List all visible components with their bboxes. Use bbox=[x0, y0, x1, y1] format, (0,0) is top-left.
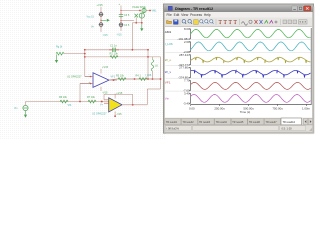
output wire bbox=[109, 79, 117, 81]
svg-text:V+: V+ bbox=[100, 104, 104, 107]
status bar bbox=[165, 125, 312, 132]
svg-text:-3.40: -3.40 bbox=[183, 102, 190, 106]
plot right border bbox=[310, 28, 312, 105]
svg-text:R7 10k: R7 10k bbox=[87, 96, 96, 99]
wire stub bbox=[121, 20, 134, 22]
svg-text:TR result2: TR result2 bbox=[183, 121, 195, 124]
menu bar bbox=[165, 12, 312, 18]
toolbar bbox=[165, 18, 312, 27]
waveform VF1 red bbox=[191, 82, 311, 89]
svg-text:C1 1n: C1 1n bbox=[110, 43, 117, 47]
red terminal stubs bbox=[100, 11, 102, 14]
wire U1 plus input bbox=[79, 84, 81, 102]
svg-text:I_L06: I_L06 bbox=[145, 74, 152, 77]
tab bar bbox=[165, 118, 312, 125]
window frame bbox=[164, 4, 314, 133]
U1 V- pin bbox=[100, 87, 102, 91]
waveform Vin magenta bbox=[191, 95, 311, 103]
svg-text:Vin: Vin bbox=[165, 97, 170, 101]
svg-text:8.00: 8.00 bbox=[184, 27, 190, 31]
svg-text:Rg 1k: Rg 1k bbox=[56, 45, 63, 48]
svg-text:VF1: VF1 bbox=[111, 76, 116, 79]
op-amp U2 bbox=[109, 98, 122, 112]
time axis bbox=[191, 103, 311, 105]
resistor R4 bbox=[139, 78, 147, 81]
svg-text:VM1: VM1 bbox=[152, 10, 158, 13]
svg-text:-V15: -V15 bbox=[103, 34, 109, 37]
rail verticals bbox=[84, 50, 86, 77]
U2 V+ pin bbox=[114, 94, 116, 99]
wire from rail1 up bbox=[131, 23, 133, 50]
wires bbox=[152, 57, 154, 60]
svg-text:277.80n: 277.80n bbox=[179, 66, 190, 70]
pin stubs bbox=[85, 76, 93, 78]
generator circle bbox=[139, 13, 144, 18]
wire bbox=[25, 102, 27, 106]
svg-text:750.00u: 750.00u bbox=[272, 107, 283, 111]
svg-text:R3 10k: R3 10k bbox=[116, 74, 125, 77]
tab nav buttons bbox=[303, 119, 307, 125]
resistor R2 bbox=[110, 56, 118, 59]
svg-text:R2 10k: R2 10k bbox=[110, 51, 119, 55]
svg-text:TR result7: TR result7 bbox=[266, 121, 278, 124]
y axes bbox=[190, 29, 192, 39]
window icon bbox=[168, 6, 172, 10]
capacitor C4 bbox=[119, 23, 123, 27]
svg-text:Diagram - TR result12: Diagram - TR result12 bbox=[175, 7, 213, 11]
toolbar icons bbox=[167, 21, 172, 24]
svg-text:1.00m: 1.00m bbox=[302, 107, 311, 111]
svg-text:R4 1: R4 1 bbox=[136, 74, 142, 77]
resistor R7 bbox=[88, 100, 96, 103]
svg-text:+V15: +V15 bbox=[116, 92, 123, 95]
battery V2 bbox=[99, 23, 103, 27]
svg-text:287.44n: 287.44n bbox=[179, 53, 190, 57]
ground arrow down bbox=[55, 55, 58, 64]
svg-text:+V15: +V15 bbox=[102, 65, 109, 69]
svg-text:3.40: 3.40 bbox=[184, 92, 190, 96]
strip separators bbox=[166, 39, 312, 41]
right rail bbox=[160, 57, 162, 89]
capacitor C3 bbox=[119, 14, 123, 16]
U2 V- pin bbox=[114, 111, 116, 116]
svg-text:7.70: 7.70 bbox=[184, 79, 190, 83]
junction bbox=[100, 20, 101, 21]
svg-text:VF1: VF1 bbox=[165, 81, 171, 85]
svg-text:Vfb: Vfb bbox=[68, 104, 72, 107]
svg-text:Time (s): Time (s) bbox=[240, 110, 251, 114]
resistor R3 bbox=[118, 78, 126, 81]
svg-text:-: - bbox=[89, 73, 90, 77]
resistor Rg bbox=[56, 52, 64, 55]
wire to VG bbox=[121, 10, 140, 12]
close button bbox=[304, 6, 311, 11]
wire bbox=[64, 53, 85, 55]
svg-text:R6 10k: R6 10k bbox=[59, 96, 68, 99]
svg-text:-V15: -V15 bbox=[102, 91, 108, 95]
ground arrow down bbox=[24, 111, 27, 118]
svg-text:TR result6: TR result6 bbox=[249, 121, 261, 124]
svg-text:I_L06: I_L06 bbox=[165, 42, 173, 46]
junction bbox=[139, 10, 141, 12]
svg-text:File Edit View Process Hel: File Edit View Process Help bbox=[167, 13, 211, 17]
junction bbox=[135, 22, 137, 24]
svg-text:TR result1: TR result1 bbox=[166, 121, 178, 124]
svg-text:0.00: 0.00 bbox=[189, 107, 195, 111]
ground arrow right bbox=[101, 19, 110, 22]
fix: join bbox=[109, 79, 117, 80]
meter X bbox=[135, 14, 139, 18]
junction bbox=[120, 10, 121, 11]
svg-text:TR result12: TR result12 bbox=[283, 121, 296, 124]
waveform I_L06 cyan bbox=[191, 42, 311, 51]
svg-text:W_v: W_v bbox=[165, 70, 172, 74]
resistor R6 bbox=[60, 100, 68, 103]
svg-text:250.00u: 250.00u bbox=[214, 107, 225, 111]
svg-text:0.5: 1.00: 0.5: 1.00 bbox=[282, 127, 293, 131]
waveform W_v blue bbox=[191, 70, 311, 77]
waveform W_o olive bbox=[191, 57, 311, 63]
svg-text:U2 OPA2227: U2 OPA2227 bbox=[92, 112, 107, 115]
svg-text:C4 5: C4 5 bbox=[124, 24, 130, 27]
svg-text:TR result5: TR result5 bbox=[232, 121, 244, 124]
waveform AM1 green bbox=[191, 29, 311, 37]
svg-text:AM1: AM1 bbox=[165, 30, 172, 34]
feedback loop bbox=[132, 94, 134, 104]
rail2 wire bbox=[85, 56, 161, 58]
svg-text:-V15: -V15 bbox=[116, 113, 122, 116]
svg-text:2.69: 2.69 bbox=[184, 40, 190, 44]
svg-text:-V15: -V15 bbox=[117, 34, 123, 37]
wire bbox=[120, 6, 122, 32]
output wire bbox=[122, 104, 147, 106]
red terminal stubs bbox=[120, 13, 122, 14]
active tab bbox=[281, 118, 302, 125]
svg-text:W_o: W_o bbox=[165, 58, 172, 62]
battery V1 bbox=[99, 12, 103, 16]
svg-text:TR result3: TR result3 bbox=[199, 121, 211, 124]
client area bbox=[165, 27, 312, 118]
wire bbox=[135, 17, 137, 22]
wire bbox=[100, 7, 102, 32]
svg-text:Vcc 15: Vcc 15 bbox=[87, 15, 95, 18]
junction bbox=[84, 49, 86, 51]
svg-text:t 98.9u/2%: t 98.9u/2% bbox=[167, 127, 180, 131]
ground arrow down bbox=[140, 24, 143, 31]
op-amp U1 bbox=[93, 73, 109, 88]
svg-text:C3 5: C3 5 bbox=[124, 14, 130, 17]
pin stubs U2 bbox=[104, 99, 109, 101]
U1 V+ pin bbox=[100, 69, 102, 74]
svg-text:TR result4: TR result4 bbox=[216, 121, 228, 124]
wire output row bbox=[117, 78, 161, 80]
junction bbox=[120, 20, 121, 21]
rail1 wire bbox=[85, 49, 148, 51]
wire bbox=[146, 10, 151, 12]
min max buttons bbox=[292, 6, 298, 11]
ammeter AM1 bbox=[142, 8, 146, 12]
svg-text:+V15: +V15 bbox=[97, 3, 104, 7]
inductor L6 bbox=[151, 60, 154, 72]
capacitor C1 bbox=[112, 48, 113, 52]
svg-text:U1 OPA2227: U1 OPA2227 bbox=[67, 75, 82, 78]
